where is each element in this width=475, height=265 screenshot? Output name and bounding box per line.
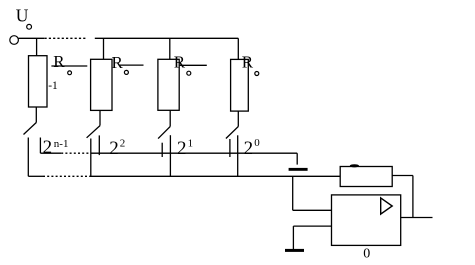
resistor R3 body (158, 59, 179, 110)
upper bus main segment (91, 152, 298, 154)
wire inverting input to op-amp (293, 209, 332, 211)
input terminal circle (10, 36, 19, 45)
svg-text:n-1: n-1 (54, 138, 69, 150)
feedback resistor body (340, 167, 392, 187)
switch S3 blade (158, 127, 170, 139)
contact tick S2 (98, 135, 100, 155)
contact tick S1 to upper bus (39, 138, 41, 154)
wire top bus solid segment from terminal (19, 37, 45, 39)
wire top bus dotted segment (45, 37, 86, 39)
wire drop to resistor R3 (169, 38, 171, 59)
lower bus main segment to summing node (90, 175, 340, 177)
contact tick S3 (161, 143, 163, 157)
resistor R4 body (231, 59, 249, 111)
wire feedback resistor right terminal (392, 175, 413, 177)
wire contact drop S1 to lower bus (27, 138, 29, 177)
svg-text:0: 0 (254, 137, 260, 149)
wire drop to resistor R1 (36, 38, 38, 55)
wire output (401, 217, 433, 219)
svg-text:0: 0 (363, 247, 370, 262)
wire non-inverting input down to ground (292, 226, 294, 249)
wire contact drop S3 to lower bus (169, 135, 171, 176)
subscript o of R1 (68, 71, 72, 75)
wire resistor R1 to switch S1 (35, 107, 37, 123)
svg-text:1: 1 (188, 137, 194, 149)
line after R1 label (51, 65, 87, 67)
svg-text:R: R (112, 53, 124, 72)
lower bus dotted segment (43, 175, 90, 177)
line after R2 label (120, 64, 144, 66)
subscript o of R4 (255, 72, 259, 76)
contact tick S4 (229, 139, 231, 157)
svg-text:-1: -1 (48, 80, 58, 92)
subscript o of U (27, 24, 32, 29)
wire drop to resistor R2 (103, 38, 105, 59)
svg-text:2: 2 (244, 138, 254, 159)
svg-text:2: 2 (120, 137, 126, 149)
wire resistor R2 to switch S2 (99, 110, 101, 125)
wire resistor R3 to switch S3 (169, 110, 171, 126)
switch S1 blade (24, 123, 37, 135)
op-amp U1 body (332, 195, 401, 246)
wire contact drop S2 to lower bus (90, 139, 92, 177)
wire contact drop S4 to lower bus (237, 135, 239, 176)
subscript o of R2 (124, 70, 128, 74)
switch S2 blade (87, 126, 100, 138)
switch S4 blade (226, 127, 238, 139)
wire summing node drop to op-amp input (292, 176, 294, 210)
ground bar lower (285, 249, 304, 252)
wire corner drop to resistor R4 (237, 38, 239, 59)
svg-text:R: R (53, 52, 65, 71)
subscript o of R3 (187, 71, 191, 75)
wire top bus main segment (95, 37, 239, 39)
wire non-inverting input from op-amp (293, 225, 331, 227)
junction dot on feedback resistor top (350, 164, 359, 167)
wire feedback down to output (412, 176, 414, 218)
svg-text:2: 2 (109, 138, 119, 159)
op-amp triangle symbol (381, 198, 393, 214)
svg-text:2: 2 (43, 137, 53, 158)
line after R3 label (180, 64, 207, 66)
svg-text:U: U (16, 5, 29, 25)
lower bus solid segment left (28, 175, 43, 177)
upper bus drop to ground (296, 153, 298, 164)
wire resistor R4 to switch S4 (237, 111, 239, 126)
svg-text:2: 2 (177, 138, 187, 159)
upper bus dotted segment (61, 152, 90, 154)
svg-text:R: R (174, 52, 186, 71)
resistor R1 body (29, 56, 48, 107)
ground bar upper (289, 168, 308, 171)
resistor R2 body (91, 59, 112, 110)
svg-text:R: R (242, 52, 254, 71)
upper bus solid segment left (40, 152, 61, 154)
